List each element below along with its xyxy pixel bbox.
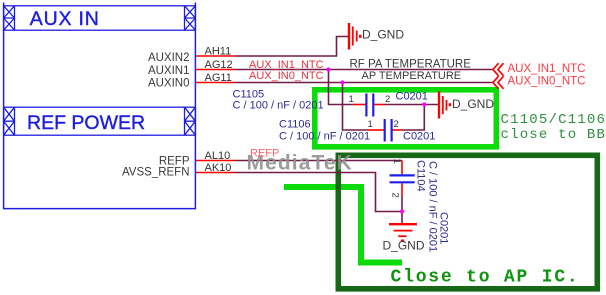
hatch square right of REF POWER band: [185, 107, 196, 135]
svg-text:AP TEMPERATURE: AP TEMPERATURE: [362, 70, 462, 82]
junction node at C1104 pin2: [400, 209, 404, 213]
junction node on AUXIN0 wire: [340, 80, 344, 84]
block header band AUX IN: [4, 6, 196, 30]
capacitor C1106: [368, 119, 402, 142]
svg-text:D_GND: D_GND: [362, 28, 404, 42]
wire AUXIN1 / AUX_IN1_NTC net: [235, 69, 493, 71]
wire C1104 pin2 to ground: [401, 197, 403, 224]
svg-text:AK10: AK10: [205, 162, 232, 174]
svg-text:AUXIN0: AUXIN0: [148, 78, 190, 90]
svg-text:AUXIN1: AUXIN1: [148, 65, 190, 77]
capacitor C1104: [390, 161, 415, 197]
wire REFP net: [235, 160, 402, 162]
wire AUXIN2 net to top ground: [235, 37, 348, 57]
pin AL10 stub: [196, 160, 235, 162]
wire C1106 pin2 up to ground node: [402, 105, 424, 131]
pin AH11 stub: [196, 55, 235, 57]
svg-text:RF PA TEMPERATURE: RF PA TEMPERATURE: [350, 59, 472, 71]
svg-text:2: 2: [385, 94, 390, 105]
junction node at ground of C1105/C1106: [422, 102, 426, 106]
svg-text:Close to AP IC.: Close to AP IC.: [391, 268, 580, 288]
wire C1105 pin2 to ground node: [385, 104, 438, 106]
svg-text:AUX_IN0_NTC: AUX_IN0_NTC: [508, 75, 586, 87]
svg-text:AH11: AH11: [205, 46, 232, 58]
svg-text:close to BB: close to BB: [501, 127, 606, 143]
svg-text:C0201: C0201: [396, 91, 428, 103]
svg-text:C / 100 / nF / 0201: C / 100 / nF / 0201: [233, 100, 324, 112]
svg-text:D_GND: D_GND: [452, 97, 494, 111]
svg-text:2: 2: [390, 193, 401, 198]
svg-text:AG11: AG11: [205, 72, 232, 84]
annotation lime L-shaped path (close-to-AP routing mark): [284, 187, 402, 263]
svg-text:AL10: AL10: [205, 150, 231, 162]
svg-text:1: 1: [368, 119, 373, 130]
pin AG11 stub: [196, 82, 235, 84]
junction node on AUXIN1 wire: [326, 67, 330, 71]
off-page connector AUX_IN1_NTC: [493, 63, 504, 76]
svg-text:AUX_IN1_NTC: AUX_IN1_NTC: [508, 63, 586, 75]
wire AUXIN0 / AUX_IN0_NTC net: [235, 82, 493, 84]
ground D_GND top (rotated bars): [349, 23, 360, 50]
wire drop to C1106: [343, 83, 369, 131]
hatch square left of AUX IN band: [4, 6, 15, 30]
svg-text:C1104: C1104: [415, 160, 427, 192]
svg-text:D_GND: D_GND: [383, 238, 425, 252]
svg-text:REF POWER: REF POWER: [27, 112, 145, 134]
pin AK10 stub: [196, 172, 235, 174]
svg-text:C1106: C1106: [279, 119, 311, 131]
svg-text:AUX_IN0_NTC: AUX_IN0_NTC: [249, 70, 324, 82]
svg-text:AUX IN: AUX IN: [30, 8, 100, 30]
hatch square right of AUX IN band: [185, 6, 196, 30]
off-page connector AUX_IN0_NTC: [493, 76, 504, 89]
svg-text:C / 100 / nF / 0201: C / 100 / nF / 0201: [279, 131, 370, 143]
svg-text:REFP: REFP: [250, 147, 279, 159]
hierarchical block outline (AUX IN / REF POWER block): [4, 3, 196, 209]
block header band REF POWER: [4, 107, 196, 135]
svg-text:AVSS_REFN: AVSS_REFN: [122, 167, 190, 179]
svg-text:AUXIN2: AUXIN2: [148, 52, 190, 64]
hatch square left of REF POWER band: [4, 107, 15, 135]
annotation green box (C1105/C1106 close to BB): [315, 90, 497, 147]
svg-text:C0201: C0201: [403, 131, 435, 143]
ground D_GND under C1104 (horizontal bars): [389, 224, 417, 240]
wire drop to C1105: [329, 70, 354, 105]
ground D_GND in green box (rotated bars): [439, 92, 450, 119]
svg-text:1: 1: [349, 94, 354, 105]
svg-text:2: 2: [394, 119, 399, 130]
svg-text:AG12: AG12: [205, 59, 233, 71]
svg-text:C / 100 / nF / 0201: C / 100 / nF / 0201: [427, 161, 439, 252]
svg-text:1: 1: [391, 159, 402, 164]
svg-text:C1105/C1106: C1105/C1106: [501, 112, 606, 128]
capacitor C1105: [353, 94, 385, 117]
pin AG12 stub: [196, 69, 235, 71]
annotation dark green box (Close to AP IC): [338, 155, 597, 288]
wire AVSS_REFN net: [235, 173, 402, 212]
svg-text:C0201: C0201: [438, 212, 450, 244]
